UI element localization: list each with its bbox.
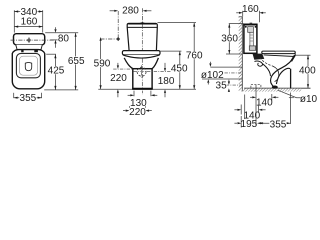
dim 425: top ext (y=54.2) xyxy=(46,53,56,55)
svg-text:ø102: ø102 xyxy=(201,70,224,81)
dim 80 arrows (outside) xyxy=(54,29,56,33)
floor hatch xyxy=(243,89,301,92)
svg-text:280: 280 xyxy=(122,6,139,17)
label 425 xyxy=(47,66,64,77)
dim 180 arrows outside xyxy=(164,63,166,68)
outlet crosshair horizontal / 180 top ref xyxy=(134,71,182,73)
cistern (front) xyxy=(127,23,157,51)
flush button centerline (dash-dot y=40.1) xyxy=(11,39,58,41)
svg-text:355: 355 xyxy=(20,93,37,104)
outlet dashed circle xyxy=(137,67,146,76)
svg-text:35: 35 xyxy=(216,81,228,92)
seat line under lid xyxy=(264,55,295,57)
base center tick xyxy=(141,91,143,95)
label 220 bottom xyxy=(129,107,146,118)
svg-text:220: 220 xyxy=(110,73,127,84)
outlet pipe bottom line xyxy=(202,78,242,80)
dim 400 xyxy=(307,55,309,88)
svg-text:80: 80 xyxy=(58,34,70,45)
trap inner curve xyxy=(273,66,279,82)
float valve box xyxy=(248,27,254,33)
arrows 340 xyxy=(14,10,42,12)
bowl rim front thick xyxy=(291,55,295,61)
cistern lid line xyxy=(127,26,157,28)
pipe centerline dash-dot xyxy=(225,72,243,74)
dim 360 top ext xyxy=(229,23,244,25)
vertical ext x=290.4 xyxy=(289,93,291,125)
extension line left (x=14.3) xyxy=(13,10,15,32)
under-bowl void curve xyxy=(276,68,290,84)
dim 590 xyxy=(100,39,102,89)
bottom ext (y=89.9) xyxy=(44,89,78,91)
pedestal bottom thick edge xyxy=(132,88,153,90)
dim 35 arrows xyxy=(228,81,230,85)
dash-dot 35 ref line xyxy=(226,84,243,86)
vertical ext x=244.7 xyxy=(244,95,246,120)
seat inner ring xyxy=(16,53,40,77)
flush valve body xyxy=(249,46,255,50)
water inlet symbol xyxy=(100,38,119,40)
dim 340 line xyxy=(14,11,42,13)
label 340 xyxy=(20,7,37,18)
cistern lower lip xyxy=(16,45,43,50)
dim 760 xyxy=(193,23,195,89)
svg-text:760: 760 xyxy=(186,51,203,62)
dim o102 arrows xyxy=(209,62,211,64)
crosshair vertical xyxy=(141,65,143,78)
dim 360 xyxy=(228,24,230,54)
cistern top extension to right (y=32.8) xyxy=(45,32,78,34)
label 160 xyxy=(20,16,37,27)
row2 dim 140 ticks xyxy=(240,105,242,115)
dim 655 line xyxy=(75,33,77,90)
cistern top ext (y=22.6) xyxy=(158,22,197,24)
dim 355 bracket left xyxy=(13,93,15,98)
svg-text:450: 450 xyxy=(171,64,188,75)
outlet pipe top line xyxy=(210,66,242,68)
pedestal-top ref dash (220) xyxy=(113,68,132,70)
vertical ext: outlet axis x=256 xyxy=(255,85,257,126)
svg-text:160: 160 xyxy=(21,16,38,27)
svg-text:360: 360 xyxy=(221,34,238,45)
label 655 xyxy=(68,56,85,67)
arrows 160 xyxy=(14,26,42,28)
rim band (front) xyxy=(123,55,160,58)
svg-text:220: 220 xyxy=(129,107,146,118)
seat band (front) xyxy=(122,51,160,55)
cistern (side) xyxy=(244,24,257,53)
dim 130 arrows outside xyxy=(128,94,131,96)
seat hinge left xyxy=(21,50,23,53)
row1 right tick x=271.8 xyxy=(271,94,273,101)
svg-text:195: 195 xyxy=(241,119,258,130)
dim 425 line xyxy=(54,54,56,90)
dim 220 bottom arrows outside xyxy=(123,110,126,112)
lid screw dots xyxy=(245,26,247,28)
dim 355 bottom right xyxy=(259,122,291,124)
dim 360 bottom ext xyxy=(226,53,242,55)
water cup xyxy=(25,62,31,70)
seat hinge right xyxy=(34,50,38,53)
floor ext line middle (y=89.2) xyxy=(98,88,132,90)
svg-text:400: 400 xyxy=(299,66,316,77)
base tick right (130) xyxy=(150,91,152,97)
bowl sides to pedestal xyxy=(124,58,133,69)
label 35 xyxy=(216,81,228,92)
flush tube xyxy=(250,32,253,46)
dim 355 line xyxy=(14,97,42,99)
wall hatch xyxy=(239,17,243,92)
dim 400 top tick xyxy=(294,52,296,55)
lid bar (side) xyxy=(262,51,295,54)
trap outlet blob xyxy=(272,86,278,89)
dim 280: ext right dash-dot (x=142.6) xyxy=(142,8,144,23)
floor outlet dashed box xyxy=(251,85,261,89)
dim 160 line xyxy=(14,26,42,28)
dim 355 bracket right xyxy=(41,93,43,98)
row1 dim 140 xyxy=(250,96,252,98)
seat outer (plan) xyxy=(12,50,44,89)
trap dashed curve xyxy=(260,58,273,67)
svg-text:160: 160 xyxy=(242,4,259,15)
dim 280 arrows (outside) xyxy=(110,10,115,12)
seat inner ring 2 xyxy=(19,56,37,75)
svg-text:425: 425 xyxy=(48,66,65,77)
svg-text:180: 180 xyxy=(158,76,175,87)
base tick left (130) xyxy=(133,91,135,97)
extension line right (x=42.7) xyxy=(42,10,44,32)
svg-text:355: 355 xyxy=(270,119,287,130)
center dash-dot of front view xyxy=(141,25,143,51)
front leg xyxy=(290,69,292,88)
dim 450 xyxy=(179,51,181,89)
bowl front sweep (side) xyxy=(271,55,296,87)
trap inlet curl xyxy=(255,61,263,66)
wall face line xyxy=(241,17,243,92)
dim 220 bottom ticks xyxy=(128,106,130,114)
flush button xyxy=(28,39,30,41)
row3 dim 195 ticks xyxy=(240,116,242,128)
cistern top thick edge xyxy=(128,23,156,25)
cistern top thick xyxy=(243,24,257,26)
pedestal xyxy=(133,69,152,89)
dim 280: ext left dash-dot (x=118.2) xyxy=(117,11,119,39)
row2 arrows xyxy=(234,109,237,111)
svg-text:ø10: ø10 xyxy=(300,94,318,105)
svg-text:590: 590 xyxy=(94,59,111,70)
dim 80: bottom ref dash xyxy=(50,39,57,41)
seat top ext (y=51.1) xyxy=(160,50,181,52)
dim 220 (mid height) arrows outside xyxy=(117,63,119,66)
label 355 xyxy=(19,93,36,104)
cistern (plan) xyxy=(14,34,45,45)
trap back line xyxy=(262,64,270,76)
floor line right view xyxy=(244,87,311,89)
cistern button nub xyxy=(250,23,253,25)
o10 leader xyxy=(278,90,301,98)
dim 160 arrows outside xyxy=(236,12,239,14)
hinge block (side) xyxy=(253,54,265,60)
row3 arrows + labels xyxy=(234,122,237,124)
svg-text:655: 655 xyxy=(68,56,85,67)
dim 160 ticks xyxy=(242,11,244,17)
